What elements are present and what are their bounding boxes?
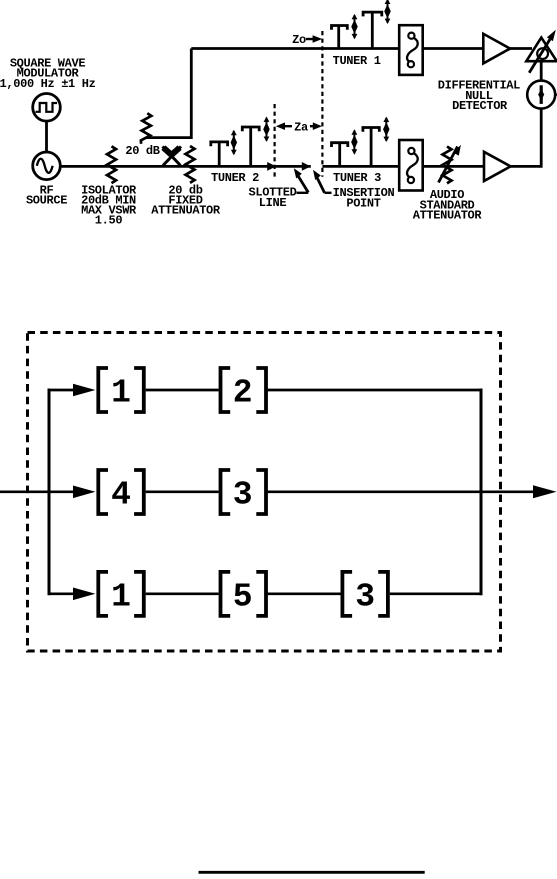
svg-text:TUNER 1: TUNER 1 — [333, 54, 381, 68]
svg-text:2: 2 — [233, 375, 253, 412]
svg-text:3: 3 — [355, 578, 375, 615]
svg-text:POINT: POINT — [346, 197, 380, 211]
svg-text:4: 4 — [111, 477, 131, 514]
svg-text:Za: Za — [294, 120, 308, 134]
svg-text:1: 1 — [111, 375, 131, 412]
svg-text:1.50: 1.50 — [95, 214, 123, 228]
svg-text:TUNER 2: TUNER 2 — [211, 171, 259, 185]
svg-text:1: 1 — [111, 578, 131, 615]
svg-text:5: 5 — [233, 578, 253, 615]
svg-text:20 dB: 20 dB — [125, 144, 159, 158]
svg-text:ATTENUATOR: ATTENUATOR — [413, 209, 483, 223]
svg-text:TUNER 3: TUNER 3 — [333, 171, 381, 185]
svg-text:SOURCE: SOURCE — [26, 194, 67, 208]
svg-text:3: 3 — [233, 477, 253, 514]
svg-text:LINE: LINE — [259, 196, 287, 210]
svg-text:1,000 Hz ±1 Hz: 1,000 Hz ±1 Hz — [0, 77, 96, 91]
svg-text:DETECTOR: DETECTOR — [452, 99, 508, 113]
svg-text:Zo: Zo — [292, 33, 306, 47]
svg-text:ATTENUATOR: ATTENUATOR — [151, 204, 221, 218]
